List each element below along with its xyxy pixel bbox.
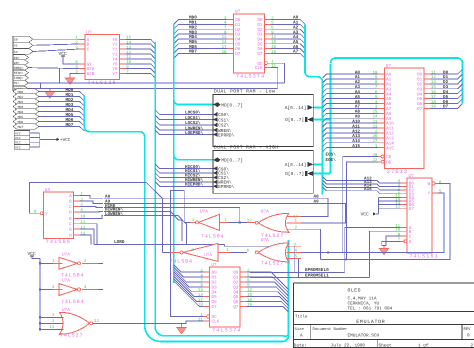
svg-text:Y7: Y7	[112, 72, 118, 77]
junction A9 riser on W return	[345, 258, 347, 260]
svg-text:12: 12	[395, 205, 400, 210]
svg-text:20: 20	[372, 153, 377, 158]
U? pin 13 O2	[417, 80, 436, 87]
svg-text:Date:: Date:	[294, 343, 307, 348]
bus D port low to D bus	[313, 119, 330, 121]
U? pin 10 B	[395, 228, 412, 235]
U? pin 7 D2	[224, 26, 241, 33]
svg-text:Q7: Q7	[233, 305, 239, 310]
svg-text:VCC: VCC	[15, 145, 21, 149]
svg-text:CS2\: CS2\	[218, 123, 229, 129]
title block Date row	[294, 342, 474, 348]
U? pin 15 Q5	[233, 293, 252, 300]
svg-text:U3: U3	[45, 188, 51, 193]
bus MD branch to dual port RAM high	[174, 155, 213, 160]
port RFSH\	[13, 70, 29, 76]
wire EPROMSEL0 row	[250, 271, 345, 273]
wire port S2 to U1 C	[33, 49, 78, 51]
svg-text:LORD: LORD	[114, 240, 125, 245]
port VCC	[14, 131, 30, 136]
U? pin 24 A9	[372, 115, 391, 122]
U? pin 1 D3	[398, 190, 415, 197]
svg-text:D7: D7	[443, 105, 449, 110]
wire inverter2 output stub	[98, 289, 103, 291]
svg-text:C: C	[409, 235, 412, 240]
U? pin 2 D2	[398, 186, 415, 193]
U? pin 3 C	[75, 45, 89, 52]
wire EPROMSEL1 row	[250, 276, 370, 278]
svg-text:U?: U?	[409, 174, 415, 179]
svg-text:CLK: CLK	[212, 320, 220, 325]
U? pin 9 A1	[375, 75, 392, 82]
port MREQ\	[13, 65, 29, 71]
svg-text:LOEPRD\: LOEPRD\	[185, 130, 203, 136]
wire 74LS55 inputs F-H to LORD row	[80, 224, 287, 247]
svg-text:22: 22	[372, 158, 377, 163]
wire nor U9C input risers to EPROMSEL rows	[295, 246, 299, 277]
bus MD branch to dual port RAM low	[174, 100, 213, 105]
U? pin 11 O0	[417, 70, 436, 77]
svg-text:19: 19	[247, 303, 252, 308]
ground at 74LS151	[379, 246, 389, 256]
U? pin 3 A7	[375, 105, 392, 112]
U? pin 17 O5	[417, 95, 436, 102]
U? pin 13 Y2	[112, 45, 131, 52]
wire U2 OC return long horizontal	[41, 82, 285, 84]
svg-text:13: 13	[431, 80, 436, 85]
svg-text:10: 10	[80, 215, 85, 220]
U? pin 14 D5	[198, 293, 217, 300]
U? pin 13 D4	[198, 288, 217, 295]
U? pin 11 A	[395, 224, 412, 231]
svg-text:U?: U?	[211, 263, 217, 268]
wire 74LS151 Y output loop	[317, 193, 445, 252]
svg-text:74LS04: 74LS04	[170, 259, 193, 265]
wire U1 Y0-Y7 outputs to chip-select bus	[126, 39, 155, 78]
U? pin 14 D5	[395, 197, 414, 204]
ground at port jog	[45, 89, 55, 99]
svg-text:16: 16	[431, 90, 436, 95]
svg-text:24: 24	[372, 115, 377, 120]
wire MD bus taps to U2 D inputs	[174, 20, 227, 59]
U? pin 17 D6	[222, 45, 241, 52]
wire 74LS151 W output loop	[321, 184, 451, 260]
U? pin 5 Q1	[233, 273, 250, 280]
wire EPROMSEL0 riser to 74LS151 A	[345, 228, 401, 273]
svg-text:17: 17	[198, 298, 203, 303]
node labels MD0-MD7 left	[66, 88, 74, 128]
svg-text:10: 10	[126, 60, 131, 65]
svg-text:RFSH\: RFSH\	[14, 71, 24, 75]
U? pin 9 D3	[257, 30, 274, 37]
svg-text:D[0..7]: D[0..7]	[285, 117, 304, 123]
port MD6	[13, 119, 39, 125]
wire VCC ports tie	[30, 133, 60, 147]
U? pin 26 A13	[372, 134, 394, 141]
svg-text:U?A: U?A	[62, 253, 70, 258]
svg-text:19: 19	[271, 50, 276, 55]
74LS374 U? body	[233, 10, 265, 80]
U? pin 5 G2B	[75, 70, 94, 77]
inverter U8B 74LS04 bottom-left 2	[39, 279, 98, 306]
bus A vertical from U2	[305, 24, 323, 194]
svg-text:74LS374: 74LS374	[236, 74, 265, 80]
svg-text:74LS55: 74LS55	[46, 239, 71, 245]
U? pin 12 O1	[417, 75, 436, 82]
svg-text:11: 11	[80, 220, 85, 225]
U? pin 7 Y7	[112, 70, 129, 77]
U? pin 1 OC	[257, 60, 274, 67]
svg-text:G: G	[409, 240, 412, 245]
bus MD left leg	[84, 96, 288, 342]
svg-text:15: 15	[126, 36, 131, 41]
svg-text:74LS374: 74LS374	[212, 328, 241, 334]
bus D horizontal top	[331, 58, 463, 104]
nor gate U9A 74LS27 bottom-left	[39, 308, 100, 339]
wire VCC rail bottom left	[32, 256, 40, 329]
node labels MD0-MD7 at U2	[189, 16, 197, 55]
U? pin 7 D2	[200, 278, 217, 285]
svg-text:13: 13	[80, 231, 85, 236]
svg-text:D[0..7]: D[0..7]	[285, 171, 304, 177]
svg-text:27: 27	[372, 139, 377, 144]
svg-text:MD[0..7]: MD[0..7]	[221, 158, 243, 164]
svg-text:11: 11	[126, 55, 131, 60]
svg-text:S1: S1	[14, 44, 18, 48]
port S1	[13, 42, 33, 48]
svg-text:12: 12	[431, 75, 436, 80]
U? pin 7 G	[398, 238, 412, 245]
svg-text:12: 12	[247, 288, 252, 293]
svg-text:W: W	[428, 182, 431, 187]
svg-text:U?A: U?A	[261, 238, 269, 243]
U? pin 1 A	[75, 36, 89, 43]
74LS151 U? body	[407, 174, 439, 260]
svg-text:MD7: MD7	[66, 123, 74, 128]
svg-text:A15: A15	[352, 144, 360, 149]
svg-text:VCC: VCC	[15, 131, 21, 135]
svg-text:CS1\: CS1\	[218, 117, 229, 123]
U? pin 16 O4	[417, 90, 436, 97]
svg-text:12: 12	[80, 225, 85, 230]
port S2	[13, 49, 33, 55]
power VCC at U1 G1	[59, 51, 79, 64]
svg-text:17: 17	[222, 45, 227, 50]
wire 74LS55 Y output up and right to clock rail	[29, 183, 162, 253]
U? pin 6 W	[428, 180, 442, 187]
svg-text:EPRRD\: EPRRD\	[218, 184, 235, 190]
bus A port low to A bus	[313, 107, 322, 109]
U? pin 4 A6	[375, 100, 392, 107]
U? pin 12 D4	[257, 35, 276, 42]
svg-text:D7: D7	[235, 52, 241, 57]
svg-text:11: 11	[431, 70, 436, 75]
U? pin 6 D2	[257, 26, 274, 33]
svg-text:21: 21	[372, 119, 377, 124]
svg-text:11: 11	[271, 64, 276, 69]
U? pin 19 D7	[257, 50, 276, 57]
svg-text:EMULATOR: EMULATOR	[356, 319, 385, 325]
wire ECS to 27512 CE	[343, 157, 378, 253]
wire U6 Q outputs merge to bus right	[247, 272, 289, 312]
wire port S0 to U1 A	[33, 38, 78, 40]
wire U1 G2A to port and down branch	[27, 68, 78, 83]
wire HIRD row to gate clock node	[104, 208, 240, 223]
svg-text:18: 18	[431, 100, 436, 105]
svg-text:74LS27: 74LS27	[60, 333, 83, 339]
svg-text:F: F	[69, 222, 72, 227]
U? pin 17 D6	[198, 298, 217, 305]
nor gate U9C 74LS27 middle 2	[247, 238, 301, 266]
svg-text:MD1: MD1	[18, 95, 24, 99]
U? pin 18 D7	[222, 50, 241, 57]
svg-text:DUAL PORT RAM - HIGH: DUAL PORT RAM - HIGH	[214, 144, 279, 150]
svg-text:MREQ\: MREQ\	[14, 66, 24, 70]
U? pin 10 Y5	[112, 60, 131, 67]
svg-text:H: H	[69, 234, 72, 239]
svg-text:EPRRD\: EPRRD\	[218, 132, 235, 138]
svg-text:MD2: MD2	[18, 100, 24, 104]
svg-text:MD3: MD3	[18, 105, 24, 109]
port VCC	[14, 145, 30, 150]
74LS138 U? body	[85, 30, 120, 86]
node labels LOCS0-LOEPRD	[185, 110, 203, 136]
svg-text:CE: CE	[386, 155, 392, 160]
svg-text:23: 23	[372, 124, 377, 129]
wire A bus taps to 74LS151 D0-D3	[323, 177, 401, 194]
svg-text:LOCS1\: LOCS1\	[185, 115, 201, 121]
inverter U7A 74LS04 middle 1	[190, 209, 228, 239]
svg-text:2: 2	[471, 343, 474, 348]
port VCC	[14, 135, 30, 140]
U? pin 4 D1	[200, 273, 217, 280]
U3 pin 12 G	[69, 225, 86, 232]
nor gate U9B 74LS27 middle 1	[247, 210, 301, 240]
U? pin 7 A3	[375, 85, 392, 92]
svg-text:D: D	[69, 210, 72, 215]
wire nor U9B input 3 riser	[301, 229, 321, 259]
wire inverter U7B input from nor U9C output	[230, 251, 247, 253]
port MD7	[13, 124, 39, 130]
svg-text:D7: D7	[409, 207, 415, 212]
svg-text:16: 16	[271, 45, 276, 50]
svg-text:July 22, 1990: July 22, 1990	[331, 342, 366, 348]
wire nor U9C input 2 row to 74LS151 Y return	[301, 251, 317, 253]
node labels HICS0-HIEPRD	[185, 164, 203, 188]
svg-text:13: 13	[293, 214, 298, 219]
svg-text:G: G	[69, 228, 72, 233]
svg-text:11: 11	[198, 317, 203, 322]
svg-text:17: 17	[431, 95, 436, 100]
wire inverter U7A output to U6 OC rail	[170, 191, 203, 317]
U? pin 9 Q3	[233, 283, 250, 290]
svg-text:B: B	[69, 200, 72, 205]
svg-text:S2: S2	[14, 50, 18, 54]
wire HIWREN row staircase down	[104, 211, 182, 241]
27512 U? body	[384, 64, 424, 175]
U? pin 18 D7	[198, 303, 217, 310]
power VCC bottom left	[28, 251, 37, 259]
U? pin 6 G1	[75, 60, 92, 67]
bus chip-select vertical from U1	[155, 42, 288, 336]
svg-text:14: 14	[126, 40, 131, 45]
svg-text:Sheet: Sheet	[379, 342, 393, 348]
U3 pin 3 C	[69, 203, 83, 210]
wire chip-select bus taps to RAM low inputs	[155, 110, 213, 135]
74LS55 U3 body	[43, 188, 73, 245]
U? pin 15 Y0	[112, 36, 131, 43]
wire A bus taps to 27512 address pins	[323, 74, 378, 152]
U? pin 18 O6	[417, 100, 436, 107]
inverter U8A 74LS04 bottom-left 1	[39, 253, 98, 279]
U? pin 21 A10	[372, 119, 394, 126]
U? pin 12 Q4	[233, 288, 252, 295]
svg-text:WR\: WR\	[14, 61, 20, 65]
74LS374 U? body	[210, 263, 242, 334]
wire EOE to 27512 OE	[347, 162, 378, 260]
svg-text:13: 13	[126, 45, 131, 50]
wire inverter U7B output to Y rail	[163, 251, 171, 253]
node labels A12-A15 at 74LS151	[364, 177, 372, 192]
svg-text:U?A: U?A	[200, 209, 208, 214]
svg-text:U?A: U?A	[62, 279, 70, 284]
svg-text:G2B: G2B	[87, 72, 95, 77]
U? pin 9 Y6	[112, 65, 129, 72]
svg-text:A15: A15	[386, 146, 394, 151]
svg-text:25: 25	[372, 110, 377, 115]
node labels A0-A15 at 27512	[352, 70, 360, 149]
svg-text:U?: U?	[235, 10, 241, 15]
bus D vertical right of RAM	[330, 64, 332, 174]
svg-text:74LS151: 74LS151	[410, 254, 439, 260]
U? pin 12 D7	[395, 205, 414, 212]
svg-text:M1\: M1\	[14, 81, 20, 85]
svg-text:A9: A9	[314, 200, 320, 205]
U? pin 8 D3	[200, 283, 217, 290]
svg-text:18: 18	[198, 303, 203, 308]
U? pin 13 D4	[222, 35, 241, 42]
port MD2	[13, 99, 39, 105]
U? pin 3 D1	[398, 183, 415, 190]
svg-text:MD6: MD6	[18, 120, 24, 124]
svg-text:Document Number: Document Number	[313, 327, 348, 332]
U? pin 3 D0	[200, 268, 217, 275]
svg-text:12: 12	[126, 50, 131, 55]
node labels D0-D7 at 27512	[443, 70, 449, 109]
svg-text:EPROMSEL1: EPROMSEL1	[305, 273, 329, 278]
svg-text:A: A	[300, 334, 303, 339]
U? pin 2 Q0	[233, 268, 250, 275]
bus D port high to D bus	[313, 173, 330, 175]
wire nor output to U6 CLK	[93, 321, 204, 323]
wire A8 row to nor U9B input 1	[104, 198, 328, 216]
U? pin 15 D4	[395, 194, 414, 201]
wire port S1 to U1 B	[33, 44, 78, 45]
svg-text:C: C	[69, 205, 72, 210]
svg-text:1 of: 1 of	[418, 342, 429, 348]
wire U2 Q outputs to A bus	[271, 20, 305, 59]
svg-text:OE: OE	[386, 160, 392, 165]
port MD5	[13, 114, 39, 120]
svg-text:18: 18	[222, 50, 227, 55]
port MD1	[13, 94, 39, 100]
hierarchical block DUAL PORT RAM - Low	[213, 88, 313, 146]
U3 pin 10 E	[69, 215, 86, 222]
U? pin 25 A8	[372, 110, 391, 117]
U? pin 5 Y	[428, 189, 442, 196]
U? pin 1 OC	[200, 313, 217, 320]
node labels A0-A7 at U2 outputs	[293, 16, 299, 55]
svg-text:74LS04: 74LS04	[61, 299, 84, 305]
svg-text:15: 15	[247, 293, 252, 298]
svg-text:CS0\: CS0\	[218, 112, 229, 118]
hierarchical block DUAL PORT RAM - HIGH	[213, 144, 313, 193]
svg-text:EOE\: EOE\	[326, 157, 337, 163]
wire chip-select bus taps to RAM high inputs	[155, 164, 213, 186]
U? pin 6 Q2	[233, 278, 250, 285]
U3 pin 13 H	[69, 231, 86, 238]
wire U2 CLK return	[271, 68, 278, 89]
svg-text:A7: A7	[293, 50, 299, 55]
ground spur near U6 CLK	[177, 323, 187, 334]
svg-text:E: E	[69, 217, 72, 222]
U? pin 5 A5	[375, 95, 392, 102]
svg-text:10: 10	[395, 228, 400, 233]
svg-text:U?: U?	[386, 64, 392, 69]
U? pin 20 CE	[372, 153, 391, 160]
svg-text:OLED: OLED	[348, 287, 362, 293]
svg-text:A15: A15	[364, 187, 372, 192]
svg-text:CLK: CLK	[255, 66, 263, 71]
U? pin 16 D6	[257, 45, 276, 52]
svg-text:10: 10	[372, 70, 377, 75]
wire port jog loop	[27, 83, 41, 89]
U? pin 11 Y4	[112, 55, 131, 62]
svg-text:MD0: MD0	[18, 90, 24, 94]
U? pin 2 A12	[375, 129, 394, 136]
U? pin 14 Y1	[112, 40, 131, 47]
U? pin 19 Q7	[233, 303, 252, 310]
port RD\	[13, 55, 29, 61]
svg-text:D7: D7	[212, 305, 218, 310]
U? pin 10 A0	[372, 70, 391, 77]
svg-text:16: 16	[247, 298, 252, 303]
svg-text:RD\: RD\	[14, 56, 20, 60]
svg-text:EMULATOR.SCH: EMULATOR.SCH	[348, 334, 380, 339]
svg-text:26: 26	[372, 134, 377, 139]
U3 pin 8 Y	[34, 210, 48, 217]
svg-text:IORQ\: IORQ\	[14, 76, 24, 80]
svg-text:LOCS0\: LOCS0\	[185, 110, 201, 116]
svg-text:74LS27: 74LS27	[261, 260, 284, 266]
bus MD vertical center	[173, 24, 175, 283]
svg-text:Y: Y	[428, 192, 431, 197]
U? pin 19 O7	[417, 105, 436, 112]
port MD4	[13, 109, 39, 115]
wire U2 CLK return long horizontal	[41, 88, 278, 90]
wire U2 OC return	[271, 63, 285, 83]
U? pin 4 D1	[224, 21, 241, 28]
svg-text:U?A: U?A	[261, 210, 269, 215]
svg-text:19: 19	[431, 105, 436, 110]
wire MD bus taps to U6 D inputs staircase	[174, 265, 204, 307]
U? pin 22 OE	[372, 158, 391, 165]
svg-text:MD7: MD7	[18, 125, 24, 129]
wire 74LS151 G to ground	[382, 241, 401, 245]
svg-text:VCC: VCC	[15, 141, 21, 145]
svg-text:MD4: MD4	[18, 110, 24, 114]
svg-text:VCC: VCC	[15, 136, 21, 140]
